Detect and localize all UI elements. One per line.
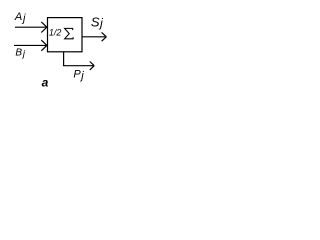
svg-text:Bj: Bj [15, 48, 25, 60]
svg-text:a: a [42, 75, 49, 89]
svg-text:Pj: Pj [73, 69, 84, 83]
svg-text:1/2: 1/2 [49, 28, 62, 38]
svg-text:Aj: Aj [14, 11, 26, 24]
svg-text:Sj: Sj [91, 15, 103, 31]
